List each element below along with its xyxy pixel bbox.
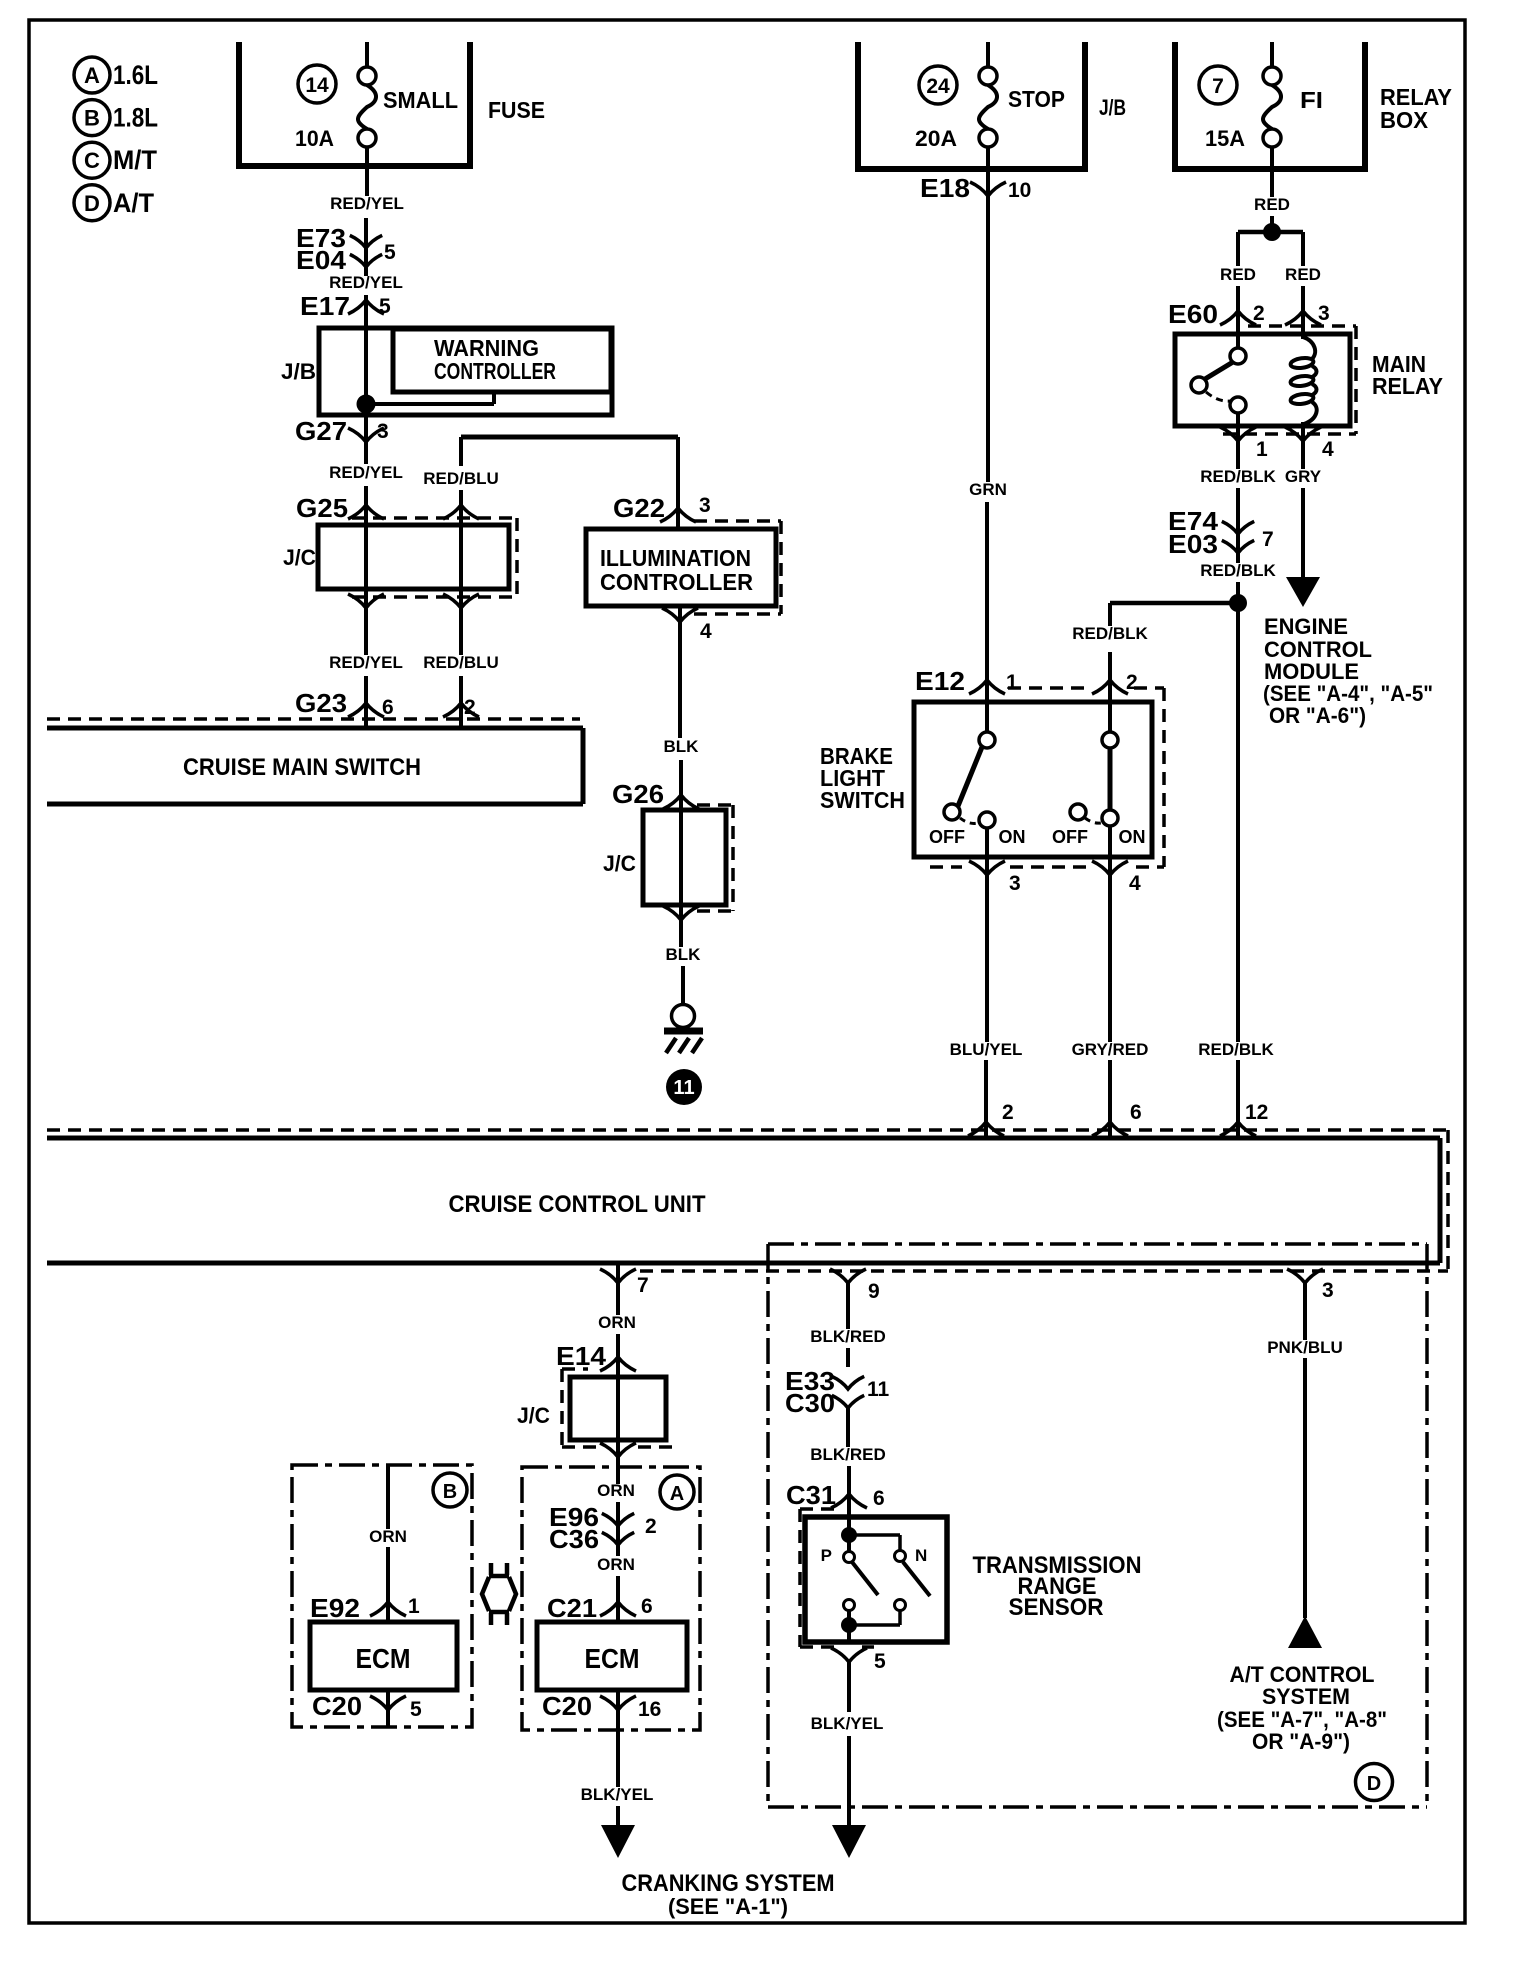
svg-text:6: 6 [873, 1487, 885, 1510]
svg-text:ENGINE: ENGINE [1264, 614, 1348, 639]
svg-text:E12: E12 [915, 666, 965, 696]
svg-text:A: A [84, 63, 100, 88]
svg-text:SYSTEM: SYSTEM [1262, 1684, 1350, 1709]
svg-text:PNK/BLU: PNK/BLU [1267, 1338, 1343, 1357]
svg-text:G22: G22 [613, 493, 665, 523]
svg-text:E03: E03 [1168, 529, 1218, 559]
svg-text:1: 1 [1256, 438, 1268, 461]
svg-text:E17: E17 [300, 291, 350, 321]
svg-text:3: 3 [377, 420, 389, 443]
svg-text:3: 3 [1318, 302, 1330, 325]
svg-text:B: B [84, 106, 100, 131]
svg-text:2: 2 [645, 1515, 657, 1538]
svg-text:FUSE: FUSE [488, 97, 545, 123]
svg-text:ILLUMINATION: ILLUMINATION [600, 545, 751, 571]
svg-text:ORN: ORN [597, 1555, 635, 1574]
svg-text:G25: G25 [296, 493, 348, 523]
svg-text:BLK/RED: BLK/RED [810, 1327, 886, 1346]
svg-text:ON: ON [1119, 827, 1146, 847]
svg-text:C31: C31 [786, 1480, 836, 1510]
svg-text:(SEE "A-1"): (SEE "A-1") [668, 1894, 788, 1919]
svg-text:J/B: J/B [1099, 95, 1126, 120]
svg-text:11: 11 [867, 1378, 890, 1401]
svg-text:ON: ON [999, 827, 1026, 847]
svg-text:A: A [670, 1483, 684, 1505]
svg-text:4: 4 [700, 620, 712, 643]
svg-text:3: 3 [1322, 1279, 1334, 1302]
svg-text:7: 7 [1262, 528, 1274, 551]
svg-text:3: 3 [1009, 872, 1021, 895]
svg-text:RED/BLK: RED/BLK [1200, 561, 1276, 580]
svg-text:5: 5 [379, 295, 391, 318]
svg-text:RED/YEL: RED/YEL [330, 194, 404, 213]
svg-text:5: 5 [410, 1698, 422, 1721]
svg-text:ORN: ORN [369, 1527, 407, 1546]
svg-text:SWITCH: SWITCH [820, 787, 905, 813]
svg-text:E18: E18 [920, 173, 970, 203]
svg-text:G23: G23 [295, 688, 347, 718]
svg-text:A/T: A/T [113, 188, 154, 218]
svg-text:5: 5 [874, 1650, 886, 1673]
svg-text:1.6L: 1.6L [113, 60, 158, 90]
svg-text:GRY: GRY [1285, 467, 1322, 486]
svg-text:CRANKING SYSTEM: CRANKING SYSTEM [622, 1870, 835, 1897]
svg-text:CRUISE MAIN SWITCH: CRUISE MAIN SWITCH [183, 754, 421, 781]
svg-text:2: 2 [464, 696, 476, 719]
svg-text:N: N [915, 1546, 927, 1565]
svg-text:C20: C20 [312, 1691, 362, 1721]
svg-text:7: 7 [637, 1274, 649, 1297]
svg-text:J/C: J/C [517, 1403, 550, 1428]
svg-text:CRUISE CONTROL UNIT: CRUISE CONTROL UNIT [449, 1191, 706, 1218]
svg-text:12: 12 [1245, 1101, 1268, 1124]
svg-text:15A: 15A [1205, 126, 1245, 151]
svg-text:C36: C36 [549, 1524, 599, 1554]
svg-text:14: 14 [305, 74, 329, 97]
svg-text:RED: RED [1220, 265, 1256, 284]
svg-text:RED/YEL: RED/YEL [329, 273, 403, 292]
svg-text:BLK/RED: BLK/RED [810, 1445, 886, 1464]
svg-text:ECM: ECM [356, 1643, 411, 1674]
svg-text:6: 6 [382, 696, 394, 719]
svg-text:4: 4 [1322, 438, 1334, 461]
svg-text:RED/YEL: RED/YEL [329, 653, 403, 672]
svg-text:2: 2 [1002, 1101, 1014, 1124]
svg-text:RED/BLU: RED/BLU [423, 469, 499, 488]
svg-text:BOX: BOX [1380, 107, 1429, 133]
svg-text:2: 2 [1253, 302, 1265, 325]
svg-text:OR "A-6"): OR "A-6") [1269, 703, 1366, 728]
svg-text:CONTROLLER: CONTROLLER [434, 358, 556, 384]
svg-text:24: 24 [926, 75, 950, 98]
svg-text:M/T: M/T [113, 145, 157, 175]
svg-text:1: 1 [408, 1595, 420, 1618]
svg-text:RED/BLK: RED/BLK [1200, 467, 1276, 486]
svg-text:6: 6 [1130, 1101, 1142, 1124]
svg-text:J/C: J/C [603, 851, 636, 876]
svg-text:BLK: BLK [664, 737, 700, 756]
svg-text:SMALL: SMALL [383, 87, 458, 113]
svg-text:ORN: ORN [597, 1481, 635, 1500]
svg-text:RED/YEL: RED/YEL [329, 463, 403, 482]
svg-text:RED: RED [1285, 265, 1321, 284]
svg-text:3: 3 [699, 494, 711, 517]
svg-text:E04: E04 [296, 245, 347, 275]
svg-text:E60: E60 [1168, 299, 1218, 329]
svg-text:ORN: ORN [598, 1313, 636, 1332]
svg-text:4: 4 [1129, 872, 1141, 895]
svg-text:9: 9 [868, 1280, 880, 1303]
svg-text:16: 16 [638, 1698, 661, 1721]
svg-text:G26: G26 [612, 779, 664, 809]
svg-text:RED: RED [1254, 195, 1290, 214]
svg-text:OFF: OFF [1052, 827, 1088, 847]
svg-text:GRY/RED: GRY/RED [1072, 1040, 1149, 1059]
svg-text:D: D [1367, 1773, 1381, 1795]
svg-text:7: 7 [1212, 75, 1224, 98]
svg-text:1: 1 [1006, 671, 1018, 694]
svg-text:10A: 10A [295, 126, 334, 151]
svg-text:BLK/YEL: BLK/YEL [581, 1785, 654, 1804]
svg-text:BLK: BLK [666, 945, 702, 964]
svg-text:C20: C20 [542, 1691, 592, 1721]
svg-text:BLK/YEL: BLK/YEL [811, 1714, 884, 1733]
svg-text:B: B [443, 1481, 457, 1503]
svg-text:C21: C21 [547, 1593, 597, 1623]
svg-text:J/B: J/B [281, 359, 316, 384]
svg-text:2: 2 [1126, 671, 1138, 694]
svg-text:RED/BLK: RED/BLK [1072, 624, 1148, 643]
svg-text:OFF: OFF [929, 827, 965, 847]
svg-text:FI: FI [1300, 87, 1323, 113]
svg-text:RED/BLK: RED/BLK [1198, 1040, 1274, 1059]
svg-text:STOP: STOP [1008, 86, 1065, 112]
svg-text:5: 5 [384, 241, 396, 264]
svg-text:20A: 20A [915, 126, 957, 151]
svg-text:CONTROLLER: CONTROLLER [600, 569, 753, 595]
svg-text:C30: C30 [785, 1388, 835, 1418]
svg-text:P: P [821, 1546, 832, 1565]
svg-text:11: 11 [673, 1077, 694, 1099]
svg-text:1.8L: 1.8L [113, 103, 158, 133]
svg-text:SENSOR: SENSOR [1009, 1594, 1104, 1621]
svg-text:BLU/YEL: BLU/YEL [950, 1040, 1023, 1059]
svg-text:C: C [84, 148, 100, 173]
svg-text:6: 6 [641, 1595, 653, 1618]
svg-text:E14: E14 [556, 1341, 607, 1371]
svg-text:G27: G27 [295, 416, 347, 446]
svg-text:GRN: GRN [969, 480, 1007, 499]
svg-text:OR "A-9"): OR "A-9") [1252, 1729, 1350, 1754]
svg-text:ECM: ECM [585, 1643, 640, 1674]
svg-text:RELAY: RELAY [1372, 373, 1443, 399]
svg-text:J/C: J/C [283, 545, 316, 570]
svg-text:RED/BLU: RED/BLU [423, 653, 499, 672]
svg-text:D: D [84, 191, 100, 216]
svg-text:E92: E92 [310, 1593, 360, 1623]
svg-text:10: 10 [1008, 179, 1031, 202]
